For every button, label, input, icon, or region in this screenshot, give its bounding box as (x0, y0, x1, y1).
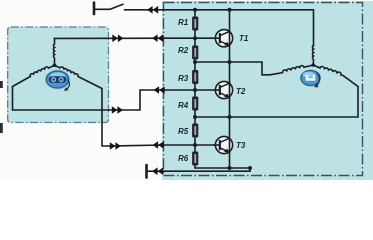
wire: connector link to base T2 (109, 90, 164, 110)
coil winding M2 top phase (312, 46, 313, 66)
wire: R4 top (194, 90, 196, 97)
wire: base T1 line (164, 37, 213, 39)
wire: R4 bottom (194, 111, 196, 118)
motor M1 symbol (left sensor) (45, 70, 71, 91)
wire: R6 top (194, 145, 196, 152)
svg-text:R5: R5 (178, 127, 189, 136)
motor M2 symbol (right motor) (300, 70, 321, 88)
wire: base T2 line (164, 89, 213, 91)
wire: emitter T3 line (195, 168, 250, 171)
wire: bottom supply (147, 170, 250, 172)
wire: R6 bottom to emitter line (194, 166, 196, 169)
connector arrows wire1 left-pointing pair (152, 34, 163, 42)
svg-text:R6: R6 (178, 154, 189, 163)
connector arrows wire3 right-pointing pair (110, 142, 121, 150)
wire: collector T1 (229, 10, 231, 62)
transistor T1 (213, 30, 233, 47)
wire: R2 top (194, 38, 196, 45)
connector arrows wire2 right-pointing pair (112, 106, 123, 114)
connector arrows wire1 right-pointing pair (112, 35, 123, 43)
wire: R1 top to rail (194, 10, 196, 17)
coil winding M2 left phase (270, 65, 313, 75)
enclosure box right (control unit) (162, 1, 373, 180)
wire: R1 bottom to base node (194, 31, 196, 39)
svg-text:R3: R3 (178, 74, 189, 83)
wire: R3 top (194, 62, 196, 70)
svg-text:T2: T2 (236, 87, 246, 96)
wire: switch to box (top supply) (125, 9, 165, 11)
wire: M1 left phase down and across (13, 87, 110, 111)
resistor R5 (192, 124, 198, 138)
wire: R5 top (194, 117, 196, 124)
svg-text:T1: T1 (239, 34, 249, 43)
resistor R4 (192, 97, 198, 111)
wire: collector T3 / emitter column (229, 117, 231, 168)
coil winding M2 right phase (313, 65, 358, 87)
wire: R2 bottom to emitter line (194, 60, 196, 63)
crop tick left edge lower (0, 123, 3, 133)
wire: R3 bottom to base node (194, 84, 196, 90)
transistor T3 (213, 136, 233, 153)
wire: collector T2 / emitter T1 column (229, 62, 231, 117)
resistor R6 (192, 152, 198, 166)
resistor R2 (192, 46, 198, 60)
svg-text:T3: T3 (236, 141, 246, 150)
wire: base T3 line (164, 144, 213, 146)
wire: M2 right phase down to emitter T2 line (195, 87, 358, 118)
wire: M1 right phase down and across (102, 89, 109, 147)
battery terminal bar bottom (145, 165, 148, 178)
wire: switch stub (94, 8, 110, 10)
crop tick left edge upper (0, 81, 3, 88)
connector arrows wire2 left-pointing pair (154, 86, 165, 94)
connector arrows wire3 left-pointing pair (153, 141, 164, 149)
wire: motor M1 top phase to connector (54, 37, 164, 39)
svg-text:R4: R4 (178, 101, 189, 110)
coil winding M1 left phase (13, 65, 55, 86)
svg-text:R1: R1 (178, 18, 189, 27)
wire: R5 bottom to base node (194, 138, 196, 146)
coil winding M1 top phase (53, 38, 54, 65)
connector arrows top supply (left-pointing pair) (147, 6, 158, 14)
connector arrows bottom supply (left-pointing pair) (152, 167, 163, 175)
wire: emitter T1 / collector T2 line (195, 62, 270, 75)
enclosure box left (sensor unit) (7, 27, 109, 124)
resistor R1 (192, 17, 198, 31)
switch S blade (110, 4, 123, 9)
resistor R3 (192, 70, 198, 84)
transistor T2 (213, 81, 233, 98)
wire: connector link to base T3 (109, 145, 164, 146)
svg-text:R2: R2 (178, 46, 189, 55)
coil winding M1 right phase (55, 65, 103, 88)
wire: top rail inside box (164, 10, 314, 46)
switch S terminal bar (93, 3, 96, 15)
